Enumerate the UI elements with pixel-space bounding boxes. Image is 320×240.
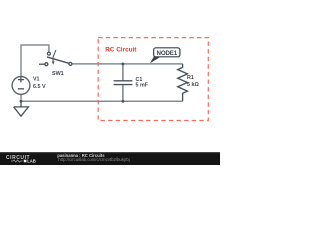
capacitor C1 (114, 81, 133, 85)
footer logo LAB with zigzag (11, 158, 36, 163)
label C1 (136, 77, 143, 83)
svg-text:NODE1: NODE1 (157, 50, 178, 57)
ground (14, 101, 29, 116)
svg-text:SW1: SW1 (52, 71, 64, 77)
label V1 (33, 77, 40, 83)
svg-text:RC Circuit: RC Circuit (105, 46, 137, 53)
svg-text:6.5 V: 6.5 V (33, 84, 46, 90)
footer credit line 2 (url) (58, 157, 129, 162)
junction node at V1 minus / ground (20, 100, 23, 103)
footer bar (0, 152, 220, 165)
wire capacitor bottom lead (122, 85, 124, 101)
svg-text:http://circuitlab.com/c/cmcvtb: http://circuitlab.com/c/cmcvtb2/bukjrbj (58, 157, 129, 162)
wire capacitor top lead (122, 64, 124, 80)
svg-text:V1: V1 (33, 77, 40, 83)
switch SW1 (39, 50, 72, 66)
footer logo CIRCUIT (6, 155, 30, 161)
svg-text:5 kΩ: 5 kΩ (187, 82, 199, 88)
label 5 kOhm (187, 82, 199, 88)
label 6.5 V (33, 84, 46, 90)
resistor R1 (178, 64, 188, 101)
footer credit line 1 (57, 153, 105, 158)
voltage source V1 (12, 77, 30, 95)
wire bottom rail (21, 100, 183, 102)
label R1 (187, 75, 194, 81)
junction node at capacitor bottom (122, 100, 125, 103)
annotation box RC Circuit (red dashed) (98, 38, 208, 121)
annotation label RC Circuit (105, 46, 137, 53)
node flag NODE1 (150, 48, 180, 64)
svg-text:LAB: LAB (27, 158, 36, 163)
junction node at capacitor top (122, 63, 125, 66)
wire top-left (V1 plus to switch) (21, 45, 49, 77)
wire top rail (switch to resistor) (72, 63, 183, 65)
svg-text:5 mF: 5 mF (136, 83, 149, 89)
svg-text:R1: R1 (187, 75, 194, 81)
wire V1 minus lead (20, 94, 22, 101)
label 5 mF (136, 83, 149, 89)
label SW1 (52, 71, 64, 77)
